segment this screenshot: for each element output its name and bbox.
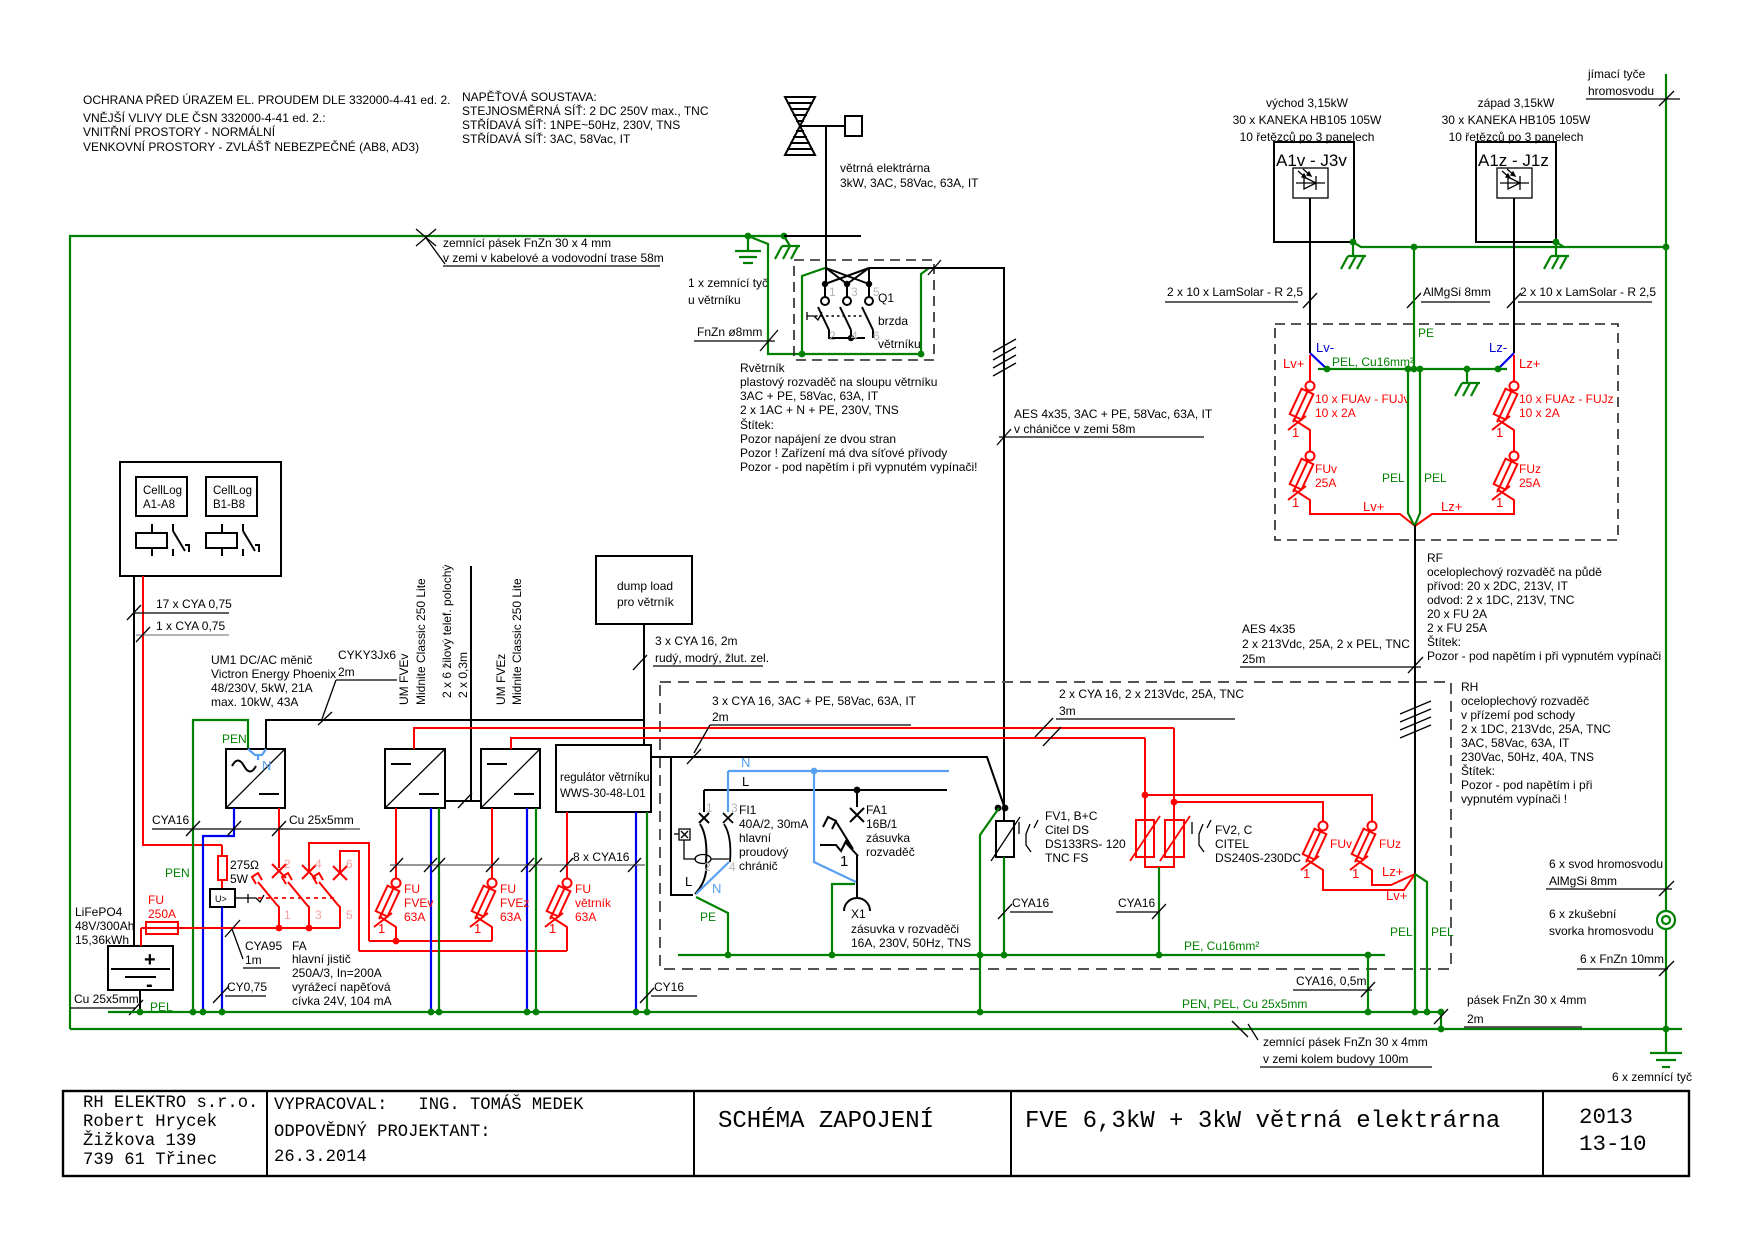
wire: A1z corner to green bus: [1556, 242, 1564, 247]
label: RH cabinet description: [1461, 680, 1611, 806]
CellLog A1-A8 module: [136, 477, 187, 516]
wire: PEL Cu16 bus in RF: [1318, 368, 1507, 370]
svg-text:VYPRACOVAL: ING. TOMÁŠ MEDEK: VYPRACOVAL: ING. TOMÁŠ MEDEK: [274, 1095, 584, 1115]
wire: dump load cable down: [643, 624, 645, 745]
svg-text:2 x 1DC, 213Vdc, 25A, TNC: 2 x 1DC, 213Vdc, 25A, TNC: [1461, 722, 1611, 736]
svg-text:275Ω: 275Ω: [230, 858, 259, 872]
svg-text:48/230V, 5kW, 21A: 48/230V, 5kW, 21A: [211, 681, 313, 695]
dimension line 8 x CYA16: [390, 850, 645, 872]
Q1 trip linkage dotted line: [807, 312, 864, 320]
svg-text:PEN: PEN: [222, 732, 247, 746]
svg-text:pro větrník: pro větrník: [617, 595, 675, 609]
svg-text:Žižkova 139: Žižkova 139: [83, 1131, 196, 1151]
PV array A1z - J1z box: [1476, 142, 1556, 242]
PV panel symbol in A1z: [1497, 168, 1532, 198]
wire: telef cable vertical: [470, 566, 472, 801]
svg-text:VENKOVNÍ PROSTORY - ZVLÁŠŤ NEB: VENKOVNÍ PROSTORY - ZVLÁŠŤ NEBEZPEČNÉ (A…: [83, 139, 419, 154]
svg-text:16B/1: 16B/1: [866, 817, 898, 831]
svg-text:5: 5: [346, 908, 353, 922]
svg-text:3m: 3m: [1059, 704, 1076, 718]
svg-text:UM FVEz: UM FVEz: [494, 654, 508, 705]
fuse FU 250A battery main fuse: [141, 893, 178, 934]
label: 17 x CYA 0,75: [127, 597, 232, 620]
wire: N blue to X1: [814, 771, 856, 882]
svg-text:západ 3,15kW: západ 3,15kW: [1478, 96, 1555, 110]
breaker FA pole 1-2: [252, 864, 286, 928]
svg-text:FA1: FA1: [866, 803, 888, 817]
label: UM1 DC/AC menic description: [211, 653, 336, 709]
svg-text:1: 1: [1303, 866, 1310, 881]
label: FUv: [1303, 837, 1352, 881]
svg-text:1 x zemnící tyč: 1 x zemnící tyč: [688, 276, 768, 290]
svg-text:Lv+: Lv+: [1363, 499, 1384, 514]
wire: FV1 green to PE bus: [1003, 857, 1005, 955]
svg-text:v cháničce v zemi 58m: v cháničce v zemi 58m: [1014, 422, 1135, 436]
svg-text:oceloplechový rozvaděč na půdě: oceloplechový rozvaděč na půdě: [1427, 565, 1602, 579]
wire: FVEv green down: [438, 808, 440, 1012]
svg-text:2: 2: [284, 857, 291, 871]
battery LiFePO4: [75, 905, 173, 996]
label: CYA16 under FV1: [998, 896, 1053, 919]
title block: author and date: [274, 1095, 584, 1167]
svg-text:vypnutém vypínači !: vypnutém vypínači !: [1461, 792, 1567, 806]
svg-text:2m: 2m: [712, 710, 729, 724]
cable mark on wind AC feed: [687, 749, 701, 764]
svg-text:PEN, PEL, Cu 25x5mm: PEN, PEL, Cu 25x5mm: [1182, 997, 1307, 1011]
svg-text:PEN: PEN: [165, 866, 190, 880]
wire: Lz+ red to fuse: [1513, 355, 1515, 381]
svg-text:3 x CYA 16, 3AC + PE, 58Vac, 6: 3 x CYA 16, 3AC + PE, 58Vac, 63A, IT: [712, 694, 917, 708]
dump load box: [596, 556, 692, 624]
svg-text:max. 10kW, 43A: max. 10kW, 43A: [211, 695, 298, 709]
svg-text:UM FVEv: UM FVEv: [397, 654, 411, 705]
svg-text:CYA16: CYA16: [1118, 896, 1155, 910]
svg-text:63A: 63A: [500, 910, 521, 924]
svg-text:-: -: [146, 974, 153, 996]
svg-text:40A/2, 30mA: 40A/2, 30mA: [739, 817, 808, 831]
wire: L black bus in RH: [704, 789, 947, 791]
label: FU FVEv 63A: [378, 882, 433, 936]
svg-text:Midnite Classic 250 Lite: Midnite Classic 250 Lite: [510, 578, 524, 705]
label: jímací tyče hromosvodu: [1586, 67, 1680, 106]
svg-text:3AC, 58Vac, 63A, IT: 3AC, 58Vac, 63A, IT: [1461, 736, 1570, 750]
svg-text:CYA16: CYA16: [1012, 896, 1049, 910]
svg-text:WWS-30-48-L01: WWS-30-48-L01: [560, 788, 646, 800]
label: 6 x svod hromosvodu AlMgSi 8mm: [1546, 857, 1674, 896]
wire: red FVEz MPPT feed: [511, 738, 1145, 749]
wire: red cross link to FUv: [1174, 802, 1323, 821]
svg-text:4: 4: [315, 857, 322, 871]
wire: green PE to X1: [832, 884, 855, 955]
svg-text:1: 1: [840, 853, 848, 870]
label: 1 x zemnící tyč u větrníku: [688, 276, 768, 307]
label: 6 x FnZn 10mm: [1577, 952, 1674, 976]
cable slashes on AES wire: [993, 339, 1016, 376]
enclosure RF dashed box: [1275, 324, 1618, 540]
wire: battery plus red stub: [140, 928, 142, 946]
wire: red DC string 2 down to FV2: [1144, 738, 1146, 857]
svg-text:2m: 2m: [1467, 1012, 1484, 1026]
svg-text:PEL: PEL: [1424, 471, 1447, 485]
node: dot downlead at bottom earth bus: [1663, 1026, 1670, 1033]
CellLog outer box: [120, 462, 281, 576]
svg-text:2 x FU 25A: 2 x FU 25A: [1427, 621, 1487, 635]
svg-text:Lz+: Lz+: [1519, 356, 1540, 371]
MPPT charge controller UM FVEz box: [481, 749, 540, 808]
svg-text:1: 1: [1352, 866, 1359, 881]
svg-text:Cu 25x5mm: Cu 25x5mm: [74, 992, 139, 1006]
svg-text:10 x FUAv - FUJv: 10 x FUAv - FUJv: [1315, 392, 1409, 406]
label: zemnící pásek bottom with slash: [1232, 1021, 1432, 1067]
svg-text:PEL: PEL: [1390, 925, 1413, 939]
svg-text:v zemi kolem budovy 100m: v zemi kolem budovy 100m: [1263, 1052, 1408, 1066]
svg-text:zásuvka v rozvaděči: zásuvka v rozvaděči: [851, 922, 959, 936]
svg-text:větrníku: větrníku: [878, 337, 921, 351]
svg-text:CYA16: CYA16: [152, 813, 189, 827]
svg-text:plastový rozvaděč na sloupu vě: plastový rozvaděč na sloupu větrníku: [740, 375, 937, 389]
svg-text:5W: 5W: [230, 872, 249, 886]
svg-text:Lv+: Lv+: [1386, 888, 1407, 903]
fuse FU vetrnik 63A: [544, 879, 571, 952]
svg-text:AlMgSi 8mm: AlMgSi 8mm: [1549, 874, 1617, 888]
wire: regulator blue down: [635, 812, 637, 1012]
title block: year and number: [1579, 1104, 1647, 1157]
wire: PV string west down: [1513, 198, 1515, 353]
svg-text:CYA95: CYA95: [245, 939, 282, 953]
svg-text:3: 3: [315, 908, 322, 922]
wire: PEL pair down to PEN bus: [1414, 874, 1416, 1012]
svg-text:Midnite Classic 250 Lite: Midnite Classic 250 Lite: [414, 578, 428, 705]
svg-text:STEJNOSMĚRNÁ SÍŤ: 2 DC 250V ma: STEJNOSMĚRNÁ SÍŤ: 2 DC 250V max., TNC: [462, 103, 709, 118]
svg-text:východ 3,15kW: východ 3,15kW: [1266, 96, 1349, 110]
svg-text:FA: FA: [292, 939, 307, 953]
node: junction dot on top earth bus 2: [781, 233, 788, 240]
svg-text:6: 6: [346, 857, 353, 871]
N clamp blue at inverter top: [248, 749, 266, 760]
label: AES 4x35 DC cable: [1240, 622, 1423, 673]
regulator vetrniku box: [556, 745, 651, 812]
svg-text:FUv: FUv: [1330, 837, 1352, 851]
node: junction dot on top earth bus: [745, 233, 752, 240]
svg-text:2 x 10 x LamSolar - R 2,5: 2 x 10 x LamSolar - R 2,5: [1520, 285, 1656, 299]
breaker Q1 crossing wires at top: [825, 268, 869, 297]
svg-text:pásek FnZn 30 x 4mm: pásek FnZn 30 x 4mm: [1467, 993, 1586, 1007]
label: pasek FnZn 30 x 4mm 2m: [1434, 993, 1586, 1027]
title block: company address: [83, 1094, 258, 1170]
svg-text:FU: FU: [404, 882, 420, 896]
svg-text:FV2, C: FV2, C: [1215, 823, 1253, 837]
resistor 275R 5W: [218, 845, 259, 889]
wire: green PE inside Q1 box: [802, 268, 825, 354]
label: CYA16 under FV2: [1116, 896, 1166, 919]
relay coil and contact B: [206, 524, 259, 556]
wire: green PE from wind feed down: [980, 808, 999, 1012]
svg-text:FU: FU: [500, 882, 516, 896]
wire: FVEz blue minus down: [526, 808, 528, 1012]
wind turbine generator symbol: [785, 97, 815, 155]
svg-text:6 x svod hromosvodu: 6 x svod hromosvodu: [1549, 857, 1663, 871]
svg-text:Pozor - pod napětím i při: Pozor - pod napětím i při: [1461, 778, 1592, 792]
node: Q1 pole top dots: [822, 281, 828, 287]
svg-text:Q1: Q1: [878, 291, 894, 305]
svg-text:6 x zemnící tyč: 6 x zemnící tyč: [1612, 1070, 1692, 1084]
svg-text:3: 3: [731, 801, 738, 815]
ground: rake under RF PEL bus: [1455, 369, 1480, 396]
svg-text:1: 1: [1496, 425, 1503, 440]
wire: red cross link to FUz: [1145, 795, 1372, 821]
node: dot on earth strip: [1438, 1026, 1445, 1033]
wire: N blue bus in RH: [728, 770, 949, 772]
wire: lightning rod downlead: [1665, 74, 1667, 1053]
node: dot FA pole1 on battery bus: [276, 925, 283, 932]
wire: AES 4x35 from Q1 to house: [869, 268, 1004, 806]
RCD FI1 pole 1: [695, 790, 709, 894]
svg-text:2: 2: [829, 329, 836, 343]
wire: FVEv blue minus down: [430, 808, 432, 1012]
wire: red DC bus FVEv+FVEz (pole 4): [369, 940, 492, 942]
label: FU FVEz 63A: [474, 882, 529, 936]
svg-text:Pozor - pod napětím i při vypn: Pozor - pod napětím i při vypnutém vypín…: [740, 460, 977, 474]
label: Q1 pin numbers: [829, 285, 880, 343]
label: 1 x CYA 0,75: [136, 619, 229, 642]
wire: link between MPPTs: [445, 800, 481, 802]
enclosure RH dashed box: [660, 682, 1451, 969]
label: 2 x 10 x LamSolar - R 2,5 right: [1507, 285, 1656, 308]
node: dots on PEN bus: [137, 1009, 1445, 1016]
fuse FU FVEv 63A: [373, 879, 400, 942]
wire: 17 x CYA 0,75 black sense bundle: [133, 576, 135, 946]
node: Q1 bottom shorting-bar dot: [848, 335, 854, 341]
relay coil and contact A: [136, 524, 189, 556]
svg-text:25m: 25m: [1242, 652, 1265, 666]
svg-text:Citel DS: Citel DS: [1045, 823, 1089, 837]
svg-text:N: N: [262, 758, 271, 773]
wire: PE green from FI1 junction: [696, 897, 728, 955]
wire: PEN green from inverter: [193, 720, 248, 1012]
wire: red link CellLog to resistor: [219, 844, 222, 846]
svg-text:1: 1: [1292, 495, 1299, 510]
label: východ 3,15kW string text: [1233, 96, 1382, 144]
svg-text:vyrážecí napěťová: vyrážecí napěťová: [292, 980, 391, 994]
enclosure Rvětrník dashed box around Q1: [794, 260, 934, 360]
svg-text:CITEL: CITEL: [1215, 837, 1249, 851]
svg-text:Štítek:: Štítek:: [740, 417, 774, 432]
wire: link PEN bus to earth strip: [1440, 1012, 1442, 1029]
svg-text:brzda: brzda: [878, 314, 908, 328]
svg-text:17 x CYA 0,75: 17 x CYA 0,75: [156, 597, 232, 611]
fuse FUAz-FUJz string fuse west: [1491, 382, 1518, 452]
label: X1 description: [851, 907, 971, 950]
label: zemnící pásek top with leader: [416, 229, 664, 266]
label: AlMgSi 8mm: [1407, 285, 1491, 308]
socket X1: [844, 898, 870, 911]
rotated label: UM FVEz Midnite Classic 250 Lite: [494, 578, 524, 705]
svg-text:FUv: FUv: [1315, 462, 1337, 476]
label: CY16 at regulator green: [640, 980, 697, 1003]
svg-text:N: N: [741, 755, 750, 770]
svg-text:Rvětrník: Rvětrník: [740, 361, 786, 375]
fuse FUz 25A west: [1415, 452, 1519, 527]
anemometer box at turbine: [845, 116, 862, 136]
svg-text:větrná elektrárna: větrná elektrárna: [840, 161, 930, 175]
svg-text:proudový: proudový: [739, 845, 788, 859]
svg-text:FVEv: FVEv: [404, 896, 433, 910]
svg-text:PEL: PEL: [1431, 925, 1454, 939]
inverter UM1 box: [226, 749, 285, 808]
svg-text:1m: 1m: [245, 953, 262, 967]
svg-text:+: +: [144, 949, 156, 971]
node: dots where AES meets FV1 tap: [995, 805, 1002, 812]
wire: FVEv red output down to fuse: [395, 808, 397, 878]
PV array A1v - J3v box: [1274, 142, 1354, 242]
svg-text:CYA16, 0,5m: CYA16, 0,5m: [1296, 974, 1366, 988]
label: CY0,75: [213, 980, 267, 1003]
svg-text:rudý, modrý, žlut. zel.: rudý, modrý, žlut. zel.: [655, 651, 769, 665]
cable mark on MPPT link: [458, 793, 472, 808]
wire: battery red bus to FA poles: [178, 927, 340, 929]
svg-text:zemnící pásek FnZn 30 x 4 mm: zemnící pásek FnZn 30 x 4 mm: [443, 236, 611, 250]
cable mark on Q1 output: [928, 260, 941, 275]
svg-text:25A: 25A: [1315, 476, 1336, 490]
wire: red DC string 1 down to FV2: [1173, 728, 1175, 857]
svg-text:v přízemí pod schody: v přízemí pod schody: [1461, 708, 1575, 722]
svg-text:1: 1: [549, 921, 556, 936]
label: FI1 pin numbers: [704, 801, 738, 874]
svg-text:Lz-: Lz-: [1489, 340, 1507, 355]
svg-text:dump load: dump load: [617, 579, 673, 593]
ground: PE rake below A1v: [1341, 242, 1366, 269]
FI1 test button: [674, 829, 729, 864]
label: RF cabinet description: [1427, 551, 1668, 663]
wire: turbine to anemometer box: [800, 125, 845, 127]
fuse FUz in RH: [1349, 822, 1415, 886]
svg-text:CY0,75: CY0,75: [227, 980, 267, 994]
svg-text:A1z - J1z: A1z - J1z: [1478, 151, 1549, 170]
svg-text:CYKY3Jx6: CYKY3Jx6: [338, 648, 396, 662]
svg-text:Štítek:: Štítek:: [1427, 634, 1461, 649]
ground: earth rod at wind turbine (1 x zemnící tyč): [735, 236, 761, 263]
node: dot at A1v corner: [1350, 239, 1357, 246]
label: FnZn ø8mm with slash: [694, 325, 778, 351]
svg-text:X1: X1: [851, 907, 866, 921]
svg-text:2m: 2m: [338, 665, 355, 679]
PV panel symbol in A1v: [1293, 168, 1328, 198]
svg-text:rozvaděč: rozvaděč: [866, 845, 915, 859]
svg-text:zásuvka: zásuvka: [866, 831, 910, 845]
node Lz-: blue string negative: [1489, 340, 1514, 369]
node: black dot on L bus: [854, 787, 861, 794]
label: FV1 description: [1045, 809, 1126, 865]
svg-text:10 řetězců po 3 panelech: 10 řetězců po 3 panelech: [1449, 130, 1584, 144]
node: blue dot on N bus: [811, 768, 818, 775]
svg-text:hromosvodu: hromosvodu: [1588, 84, 1654, 98]
svg-text:u větrníku: u větrníku: [688, 293, 741, 307]
label: AES 4x35 3AC+PE cable: [997, 407, 1213, 445]
svg-text:4: 4: [851, 329, 858, 343]
svg-text:U>: U>: [215, 894, 227, 904]
wire: turbine drop wire: [825, 126, 827, 268]
fuse FU FVEz 63A: [469, 879, 496, 942]
svg-text:6 x FnZn 10mm: 6 x FnZn 10mm: [1580, 952, 1664, 966]
ground: PE rake symbol near top bus: [775, 236, 800, 259]
label: Q1 brzda větrníku: [878, 291, 921, 351]
svg-text:B1-B8: B1-B8: [213, 499, 245, 511]
breaker FA pole 5-6: [313, 851, 359, 951]
svg-text:2 x 1AC + N + PE, 230V, TNS: 2 x 1AC + N + PE, 230V, TNS: [740, 403, 899, 417]
svg-text:DS133RS- 120: DS133RS- 120: [1045, 837, 1126, 851]
svg-text:OCHRANA PŘED ÚRAZEM EL. PROUDE: OCHRANA PŘED ÚRAZEM EL. PROUDEM DLE 3320…: [83, 92, 450, 107]
svg-text:13-10: 13-10: [1579, 1131, 1647, 1157]
svg-text:TNC FS: TNC FS: [1045, 851, 1088, 865]
label: CYA95 1m: [225, 920, 282, 968]
svg-text:cívka 24V, 104 mA: cívka 24V, 104 mA: [292, 994, 392, 1008]
svg-text:1: 1: [474, 921, 481, 936]
wire: PE drop from roof bus: [1413, 247, 1415, 369]
wire: PE bus corner down to PEN: [1367, 955, 1369, 1012]
svg-text:FVEz: FVEz: [500, 896, 529, 910]
label: FUz: [1352, 837, 1401, 881]
test clamp: 6 x zkušební svorka hromosvodu: [1657, 911, 1675, 929]
svg-text:1: 1: [706, 801, 713, 815]
svg-text:Robert Hrycek: Robert Hrycek: [83, 1113, 217, 1132]
label: 2 x 10 x LamSolar - R 2,5 left: [1165, 285, 1317, 308]
svg-text:hlavní: hlavní: [739, 831, 772, 845]
wire: FI1 L loop from wind feed: [671, 757, 693, 895]
node: dots on RF PEL bus: [1324, 366, 1331, 373]
node: green dot on PE loop left: [799, 351, 806, 358]
svg-text:A1v - J3v: A1v - J3v: [1276, 151, 1347, 170]
svg-text:2013: 2013: [1579, 1104, 1633, 1130]
svg-text:svorka hromosvodu: svorka hromosvodu: [1549, 924, 1654, 938]
svg-text:FnZn ø8mm: FnZn ø8mm: [697, 325, 762, 339]
svg-text:Lv-: Lv-: [1316, 340, 1334, 355]
wire: Lv+ red to fuse: [1309, 355, 1311, 381]
svg-text:Pozor napájení ze dvou stran: Pozor napájení ze dvou stran: [740, 432, 896, 446]
svg-text:2 x 0,3m: 2 x 0,3m: [456, 652, 470, 698]
label: FA description: [292, 939, 392, 1008]
relay U> undervoltage: [210, 889, 248, 907]
node: dot FVEv fuse on DC bus: [393, 938, 400, 945]
svg-text:oceloplechový rozvaděč: oceloplechový rozvaděč: [1461, 694, 1589, 708]
ground: PE rake below A1z: [1544, 242, 1569, 269]
svg-text:1: 1: [284, 908, 291, 922]
svg-text:VNITŘNÍ PROSTORY - NORMÁLNÍ: VNITŘNÍ PROSTORY - NORMÁLNÍ: [83, 124, 276, 139]
svg-text:CellLog: CellLog: [143, 485, 182, 497]
wire: FV2 green to PE bus: [1158, 867, 1160, 955]
svg-text:STŘÍDAVÁ SÍŤ: 3AC, 58Vac, IT: STŘÍDAVÁ SÍŤ: 3AC, 58Vac, IT: [462, 131, 631, 146]
label: FUz 25A: [1496, 462, 1541, 510]
wire: 1 x CYA 0,75 red sense wire: [143, 576, 222, 845]
svg-text:FU: FU: [575, 882, 591, 896]
svg-text:PE: PE: [700, 910, 716, 924]
wire: red FVEv MPPT feed: [414, 728, 1174, 749]
label: větrná elektrárna: [840, 161, 979, 190]
svg-text:4: 4: [729, 860, 736, 874]
wire: inverter N blue down: [203, 808, 234, 1012]
wire: earthing strip left border (FnZn 30x4): [70, 236, 784, 1029]
svg-text:26.3.2014: 26.3.2014: [274, 1148, 367, 1167]
wire: PV equipotential green bus on roof: [1353, 242, 1666, 247]
svg-text:63A: 63A: [575, 910, 596, 924]
wire: PE Cu16 bus in RH: [678, 954, 1385, 956]
svg-text:N: N: [712, 881, 721, 896]
svg-text:Štítek:: Štítek:: [1461, 763, 1495, 778]
svg-text:10 x FUAz - FUJz: 10 x FUAz - FUJz: [1519, 392, 1614, 406]
wire: red DC bus wind (pole 6): [359, 950, 567, 952]
wire: black segment of top bus: [784, 235, 861, 237]
svg-text:PEL: PEL: [1382, 471, 1405, 485]
svg-text:Cu 25x5mm: Cu 25x5mm: [289, 813, 354, 827]
